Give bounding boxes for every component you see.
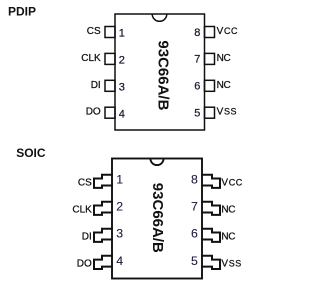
svg-text:3: 3	[119, 81, 125, 93]
svg-text:CLK: CLK	[72, 204, 92, 215]
svg-text:6: 6	[194, 81, 200, 93]
svg-text:3: 3	[116, 227, 123, 241]
svg-text:DI: DI	[82, 231, 92, 242]
svg-text:NC: NC	[221, 204, 235, 215]
svg-text:1: 1	[116, 173, 123, 187]
svg-text:CS: CS	[87, 26, 101, 37]
svg-text:VSS: VSS	[217, 107, 237, 118]
svg-text:NC: NC	[217, 53, 231, 64]
svg-text:8: 8	[191, 173, 198, 187]
svg-text:5: 5	[191, 254, 198, 268]
svg-text:4: 4	[116, 254, 123, 268]
svg-text:2: 2	[119, 55, 125, 67]
svg-text:7: 7	[191, 200, 198, 214]
svg-text:NC: NC	[221, 231, 235, 242]
svg-text:VSS: VSS	[221, 259, 241, 270]
svg-text:VCC: VCC	[221, 177, 242, 188]
svg-text:NC: NC	[217, 80, 231, 91]
svg-text:4: 4	[119, 108, 125, 120]
svg-text:DI: DI	[91, 80, 101, 91]
svg-text:DO: DO	[86, 107, 101, 118]
svg-text:1: 1	[119, 28, 125, 40]
svg-text:2: 2	[116, 200, 123, 214]
svg-text:6: 6	[191, 227, 198, 241]
svg-text:PDIP: PDIP	[8, 5, 36, 19]
svg-text:DO: DO	[77, 259, 92, 270]
svg-text:SOIC: SOIC	[16, 146, 46, 160]
svg-text:7: 7	[194, 54, 200, 66]
svg-text:93C66A/B: 93C66A/B	[149, 183, 166, 253]
svg-text:VCC: VCC	[217, 26, 238, 37]
svg-text:8: 8	[194, 27, 200, 39]
svg-text:93C66A/B: 93C66A/B	[155, 40, 172, 110]
svg-text:5: 5	[194, 108, 200, 120]
svg-text:CLK: CLK	[81, 53, 101, 64]
svg-text:CS: CS	[78, 177, 92, 188]
